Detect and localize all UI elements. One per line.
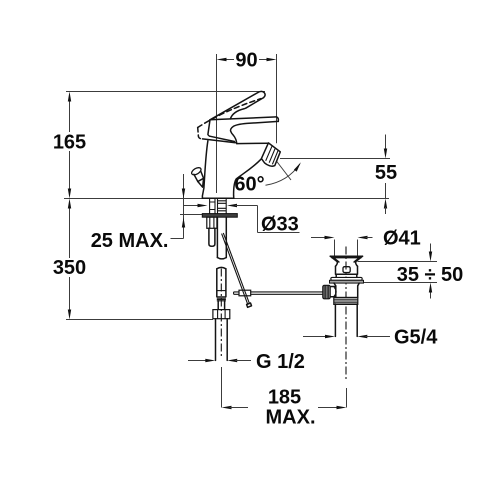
diagonal rod [222,233,250,304]
collar [331,277,362,280]
25 MAX leader [171,238,184,240]
hidden left edge dashed [198,128,203,139]
spout tip [276,117,278,122]
lower band [336,274,357,277]
thread band [217,297,226,301]
G1/2 pipe upper section [217,269,226,297]
mid body [336,286,358,298]
dim O41 line [311,237,327,239]
flange top ext line [180,214,203,216]
cup waist [336,262,358,267]
stud head [207,217,217,228]
pop-up knob tail [198,178,204,187]
svg-text:MAX.: MAX. [266,407,316,429]
handle hidden back edge dashed [198,99,261,128]
dim 55 line [385,135,387,151]
thread lines [210,201,226,211]
dim G1/2 [188,360,208,362]
dim 165 top ext line [66,91,265,93]
dim 60 leg line (aerator axis) [277,162,291,181]
dim 185 ext right [346,388,348,408]
centerline [345,247,347,381]
dim 25 MAX line [183,174,185,239]
dim 55 ext line (aerator height) [280,158,390,160]
flange washer [202,214,237,218]
O41 ext lines [334,240,336,256]
shank vertical lines [209,199,211,214]
pop-up knob stem [194,172,204,182]
svg-text:25 MAX.: 25 MAX. [91,230,169,252]
dim 60 deg arc [266,164,300,185]
dim 35-50 ext lines [358,261,438,263]
collar bottom line [203,139,236,143]
dim 185 ext left [221,367,223,408]
ball housing [329,287,336,297]
stud rod [209,228,215,246]
overflow hole [343,267,350,273]
svg-text:185: 185 [268,387,301,409]
bottom reference line [66,319,213,321]
rod end cap [247,303,252,307]
supply pipe [216,319,228,361]
dim 90 arrows [225,59,235,61]
taper under gasket [334,283,359,286]
tube bottom [217,258,226,259]
svg-text:165: 165 [53,132,86,154]
handle lever top edge [210,93,258,120]
dim 350 line [69,207,71,258]
neck curve [230,109,244,119]
svg-text:350: 350 [53,257,86,279]
aerator knurl lines [266,146,279,165]
horizontal rod [234,292,323,294]
main tube [217,217,226,257]
neck [218,301,224,310]
svg-text:Ø33: Ø33 [261,214,299,236]
svg-text:G 1/2: G 1/2 [256,351,305,373]
spout top edge [210,117,276,120]
dim 90 ext right [276,54,278,143]
G1/2 pipe top [217,267,226,268]
svg-text:Ø41: Ø41 [383,228,421,250]
svg-text:90: 90 [235,50,257,72]
coupling nut [213,310,230,319]
pop-up knob head [190,166,202,176]
pipe centerline [220,269,222,357]
collar top line [210,136,235,141]
countertop reference line [64,198,389,200]
body front ledge to aerator [237,142,269,144]
dim 185 arrows [222,406,232,409]
aerator knurled cylinder [261,143,280,166]
clamp [239,290,251,296]
spout underside into dome edge [231,121,279,143]
handle tip [258,91,265,97]
body block [336,266,358,274]
thread collar [334,297,358,304]
gasket [330,280,364,283]
knurled knob [323,285,330,299]
dim O33 line and arrows [184,205,201,207]
svg-text:35 ÷ 50: 35 ÷ 50 [397,264,464,286]
dim G5/4 [303,336,327,338]
cup [330,256,362,262]
dim 165 line [69,100,71,132]
body front S-curve below aerator [234,159,262,198]
dim 35-50 arrows [430,244,432,254]
tailpipe [335,304,357,336]
handle underside solid [246,98,264,109]
dim 90 ext left [216,54,218,193]
body left edge [202,141,208,198]
boss left edge [208,120,210,136]
base bottom [202,197,233,199]
svg-text:55: 55 [375,162,397,184]
joint line [217,290,226,292]
svg-text:G5/4: G5/4 [394,327,438,349]
